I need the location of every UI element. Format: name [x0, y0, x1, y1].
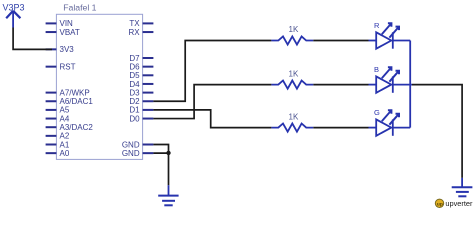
svg-text:D5: D5 — [129, 71, 140, 80]
svg-text:GND: GND — [122, 149, 140, 158]
svg-text:1K: 1K — [289, 69, 299, 78]
svg-text:3V3: 3V3 — [60, 45, 75, 54]
svg-text:RX: RX — [128, 28, 140, 37]
svg-text:A1: A1 — [60, 140, 70, 149]
svg-text:D7: D7 — [129, 54, 140, 63]
svg-text:A2: A2 — [60, 132, 70, 141]
svg-text:D2: D2 — [129, 97, 140, 106]
svg-text:D3: D3 — [129, 88, 140, 97]
svg-text:VBAT: VBAT — [60, 28, 80, 37]
svg-text:up: up — [437, 202, 443, 207]
svg-text:upverter: upverter — [445, 199, 473, 208]
svg-text:A4: A4 — [60, 114, 70, 123]
svg-text:V3P3: V3P3 — [3, 3, 25, 13]
svg-text:VIN: VIN — [60, 19, 74, 28]
svg-text:A6/DAC1: A6/DAC1 — [60, 97, 94, 106]
svg-text:A7/WKP: A7/WKP — [60, 88, 90, 97]
svg-text:A5: A5 — [60, 106, 70, 115]
svg-text:D6: D6 — [129, 62, 140, 71]
svg-text:D0: D0 — [129, 114, 140, 123]
svg-text:A3/DAC2: A3/DAC2 — [60, 123, 94, 132]
svg-text:D4: D4 — [129, 80, 140, 89]
svg-text:R: R — [374, 21, 380, 30]
svg-text:RST: RST — [60, 62, 76, 71]
svg-text:1K: 1K — [289, 25, 299, 34]
svg-text:TX: TX — [129, 19, 140, 28]
svg-text:D1: D1 — [129, 106, 140, 115]
svg-text:GND: GND — [122, 140, 140, 149]
svg-text:B: B — [374, 65, 379, 74]
svg-text:G: G — [374, 108, 380, 117]
svg-text:Falafel 1: Falafel 1 — [63, 2, 96, 12]
svg-text:1K: 1K — [289, 112, 299, 121]
svg-text:A0: A0 — [60, 149, 70, 158]
